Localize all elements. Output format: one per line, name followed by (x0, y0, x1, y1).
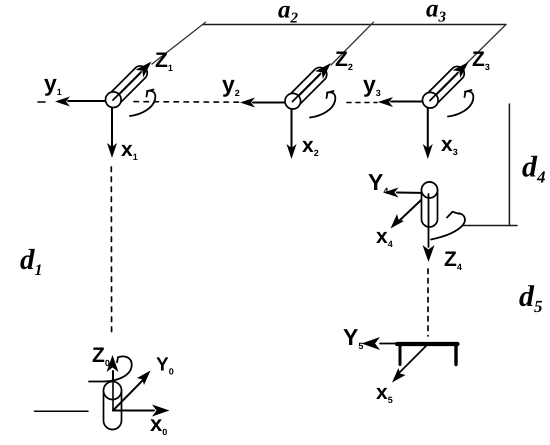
arrowhead x5 (392, 368, 406, 383)
extension diagonal at a2/a3 junction (along Z2) (331, 22, 374, 65)
wire Z4 axis line (428, 194, 430, 247)
arrowhead Z0 (107, 355, 119, 372)
wire y1 axis line (68, 100, 112, 102)
arrowhead x1 (107, 143, 117, 158)
cylinder joint 3 (capsule) (423, 66, 464, 107)
svg-text:x1: x1 (121, 138, 138, 162)
wire x3 axis line (427, 102, 429, 149)
wire Z0 axis line (112, 371, 114, 411)
svg-text:a3: a3 (426, 0, 447, 26)
wire dashed link frame1-frame2 (134, 101, 240, 104)
wire y5 axis line (380, 343, 428, 345)
cylinder joint 2 (capsule) (286, 67, 327, 108)
svg-text:Y4: Y4 (368, 169, 388, 196)
dimension line d4 bottom horizontal (463, 225, 517, 227)
end-effector top bar (397, 342, 458, 346)
wire Z3 axis line (430, 73, 458, 101)
svg-text:x0: x0 (150, 411, 167, 437)
cylinder 1 end circle (106, 92, 122, 108)
rotation arrow joint 2 (310, 92, 335, 117)
cylinder 3 inner edge (431, 74, 458, 101)
rotation arrow joint 4 (431, 213, 465, 239)
rotation arrow joint 1 (130, 91, 155, 116)
arrowhead y3 (378, 97, 393, 107)
arrowhead Z4 (423, 245, 435, 262)
svg-text:Z3: Z3 (472, 48, 490, 72)
dimension line d4 vertical (508, 104, 510, 226)
wire x1 axis line (111, 101, 113, 147)
svg-text:Z0: Z0 (92, 344, 110, 368)
wire dashed link frame2-frame3 (347, 102, 377, 104)
cylinder 4 inner edge (429, 182, 431, 220)
end-effector left leg (399, 346, 402, 365)
dimension line a2-a3 horizontal (203, 24, 506, 26)
wire y3 axis line (391, 101, 429, 103)
wire x4 axis line (400, 194, 428, 220)
arrowhead x4 (391, 214, 405, 229)
wire dashed link frame1-frame0 (d1) (110, 167, 112, 336)
cylinder 1 inner edge (114, 73, 141, 100)
wire dashed link frame4-frame5 (427, 269, 429, 336)
svg-text:x3: x3 (441, 133, 458, 157)
cylinder 3 end circle (423, 92, 439, 108)
rotation arrow joint 3 (448, 91, 473, 116)
arrowhead X0 (152, 405, 170, 417)
svg-text:a2: a2 (278, 0, 299, 27)
arrowhead Z3 (453, 62, 469, 78)
svg-text:y3: y3 (363, 71, 381, 98)
svg-text:x5: x5 (376, 381, 393, 405)
extension diagonal at right end (along Z3) (467, 25, 506, 64)
rotation arrow joint 0 (89, 356, 132, 381)
wire y4 axis line (397, 192, 428, 195)
arrowhead Y0 (137, 371, 151, 386)
wire Z0 through cylinder (112, 383, 114, 411)
arrowhead y4 (384, 188, 399, 198)
arrowhead Z1 (136, 62, 152, 78)
dash left of y1 (38, 101, 45, 103)
cylinder joint 1 (capsule) (106, 66, 147, 107)
arrowhead Z2 (315, 63, 331, 79)
svg-text:y1: y1 (44, 70, 62, 97)
svg-text:x2: x2 (302, 134, 319, 158)
cylinder joint 4 (vertical capsule) (422, 182, 438, 227)
arrowhead y5 (362, 337, 381, 350)
svg-text:d4: d4 (522, 151, 546, 187)
ground line (35, 410, 89, 412)
arrowhead y1 (55, 97, 70, 107)
cylinder 2 inner edge (293, 75, 320, 102)
cylinder joint 0 (vertical capsule) (104, 383, 122, 430)
svg-text:y2: y2 (222, 71, 240, 98)
svg-text:x4: x4 (376, 225, 393, 249)
wire y2 axis line (253, 102, 292, 104)
svg-text:d5: d5 (519, 280, 543, 316)
arrowhead x3 (423, 144, 433, 159)
wire x2 axis line (291, 103, 293, 149)
cylinder 2 end circle (285, 93, 301, 109)
extension diagonal at left end (along Z1) (152, 22, 206, 64)
wire x5 axis line (399, 345, 427, 373)
cylinder 4 end circle (422, 182, 438, 198)
svg-text:Z2: Z2 (335, 48, 353, 72)
cylinder 0 end circle (104, 382, 122, 400)
svg-text:Z1: Z1 (155, 49, 173, 73)
arrowhead x2 (287, 144, 297, 159)
end-effector right leg (454, 346, 457, 365)
wire Y0 axis line (113, 380, 144, 411)
svg-text:d1: d1 (20, 244, 43, 279)
wire Z2 axis line (293, 74, 321, 102)
svg-text:Z4: Z4 (444, 248, 462, 272)
arrowhead y2 (240, 98, 255, 108)
svg-text:Y5: Y5 (343, 324, 363, 351)
wire X0 axis line (113, 410, 154, 412)
svg-text:Y0: Y0 (156, 355, 174, 377)
wire Z1 axis line (113, 72, 141, 100)
